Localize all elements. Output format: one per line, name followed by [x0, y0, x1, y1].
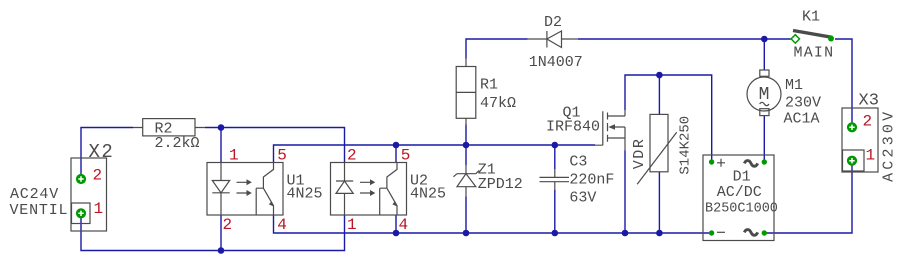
wire Z1 bottom to rail — [465, 197, 467, 234]
svg-text:ZPD12: ZPD12 — [478, 176, 523, 193]
svg-text:5: 5 — [277, 147, 287, 165]
MOSFET Q1 — [595, 110, 625, 151]
svg-text:K1: K1 — [802, 9, 820, 26]
svg-text:D2: D2 — [544, 14, 562, 31]
switch K1 — [791, 31, 834, 44]
svg-text:2.2kΩ: 2.2kΩ — [155, 135, 200, 152]
junction C3 gate rail — [552, 142, 559, 149]
wire U2 pin4 down — [395, 215, 397, 233]
wire M1 bottom to D1 AC — [763, 116, 765, 162]
junction U2.4 bottom rail — [393, 230, 400, 237]
connector X2 pin 1 contact — [76, 208, 86, 218]
D1 plus symbol — [717, 159, 725, 167]
wire bottom rail B — [274, 215, 712, 233]
wire junction to U1 pin1 — [220, 128, 222, 163]
wire U2 pin5 up — [395, 145, 397, 163]
svg-text:IRF840: IRF840 — [546, 119, 600, 136]
zener diode Z1 — [453, 165, 479, 197]
svg-text:X2: X2 — [89, 141, 115, 163]
junction Q1 source bottom rail — [622, 230, 629, 237]
wire U1 pin2 down — [220, 215, 222, 251]
connector X3 pin 1 contact — [847, 156, 857, 166]
wire U1 pin5 gate rail — [274, 145, 596, 163]
connector X2 pin1 terminal square — [72, 203, 91, 224]
D1 pin plus contact — [709, 159, 714, 164]
wire VDR bottom to rail — [658, 172, 660, 233]
svg-text:C3: C3 — [569, 154, 587, 171]
D1 minus symbol — [717, 231, 725, 233]
junction VDR bottom rail — [656, 230, 663, 237]
svg-text:S14K250: S14K250 — [678, 116, 694, 175]
wire K1 to X3 pin2 — [835, 39, 852, 127]
svg-text:M: M — [759, 85, 770, 105]
optocoupler U2 — [331, 163, 407, 216]
wire gate rail to Z1 top — [465, 145, 467, 165]
svg-text:AC24V: AC24V — [10, 186, 59, 203]
junction C3 bottom rail — [552, 230, 559, 237]
svg-text:220nF: 220nF — [569, 172, 614, 189]
capacitor C3 — [540, 169, 570, 190]
junction R2/U1.1/U2.2 — [218, 124, 225, 131]
svg-text:4: 4 — [277, 216, 287, 234]
connector X3 pin1 terminal square — [843, 150, 865, 171]
wire R2 to U2 pin2 — [205, 128, 345, 163]
diode D2 — [528, 31, 578, 48]
junction D2/M1/K1 — [761, 36, 768, 43]
connector X3 pin 2 contact — [847, 122, 857, 132]
wire R1 bottom to gate rail — [465, 124, 467, 145]
D1 pin minus contact — [709, 230, 714, 235]
svg-text:2: 2 — [863, 113, 873, 131]
svg-text:MAIN: MAIN — [794, 45, 835, 62]
svg-text:1: 1 — [94, 200, 104, 218]
svg-text:1: 1 — [347, 216, 357, 234]
wire gate rail to C3 top — [554, 145, 556, 169]
svg-text:AC/DC: AC/DC — [717, 184, 762, 201]
wire Q1 drain rail to D1 plus — [625, 75, 712, 162]
svg-text:VDR: VDR — [631, 137, 648, 169]
svg-text:2: 2 — [223, 216, 233, 234]
wire X2 pin1 lower rail A to U2 pin1 — [81, 213, 345, 250]
svg-text:AC230V: AC230V — [881, 109, 898, 182]
svg-text:4N25: 4N25 — [410, 186, 446, 203]
junction R1/Z1 gate rail — [463, 142, 470, 149]
connector X2 body — [71, 158, 107, 231]
connector X3 body — [842, 108, 878, 172]
D1 AC squiggle bottom — [744, 230, 757, 236]
svg-text:M1: M1 — [785, 77, 803, 94]
svg-text:B250C1000: B250C1000 — [705, 201, 778, 216]
D1 AC squiggle top — [744, 161, 757, 167]
junction Z1 bottom rail — [463, 230, 470, 237]
wire R1 top to D2 cathode — [466, 39, 528, 59]
varistor VDR — [637, 114, 677, 184]
optocoupler U1 — [207, 163, 283, 216]
connector X2 pin 2 contact — [76, 174, 86, 184]
resistor R2 — [133, 119, 205, 136]
wire Q1 source down — [624, 151, 626, 234]
wire D2 anode to K1 — [578, 38, 792, 40]
wire X2 pin2 to R2 — [81, 128, 133, 180]
junction U2.5 gate rail — [393, 142, 400, 149]
junction VDR drain rail — [656, 72, 663, 79]
bridge rectifier D1 — [703, 155, 774, 241]
svg-text:R1: R1 — [480, 77, 498, 94]
svg-text:4: 4 — [399, 216, 409, 234]
svg-text:63V: 63V — [569, 189, 596, 206]
D1 pin AC bottom contact — [762, 230, 767, 235]
wire X3 pin1 to D1 AC bottom — [764, 161, 852, 233]
svg-text:VENTIL: VENTIL — [10, 202, 69, 219]
junction U1.2 lower rail — [218, 247, 225, 254]
svg-text:AC1A: AC1A — [784, 110, 820, 127]
wire C3 bottom to rail — [554, 190, 556, 233]
svg-text:2: 2 — [347, 147, 357, 165]
motor M1 — [747, 70, 781, 116]
svg-text:5: 5 — [401, 147, 411, 165]
svg-text:230V: 230V — [785, 95, 821, 112]
svg-text:1: 1 — [866, 147, 876, 165]
svg-text:47kΩ: 47kΩ — [480, 95, 516, 112]
svg-text:X3: X3 — [859, 92, 879, 111]
svg-text:4N25: 4N25 — [287, 186, 323, 203]
wire top rail to M1 — [763, 39, 765, 70]
wire drain rail to VDR top — [658, 75, 660, 114]
resistor R1 — [456, 59, 476, 127]
svg-text:1N4007: 1N4007 — [529, 54, 583, 71]
svg-text:2: 2 — [93, 167, 103, 185]
D1 pin AC top contact — [762, 159, 767, 164]
svg-text:1: 1 — [229, 147, 239, 165]
